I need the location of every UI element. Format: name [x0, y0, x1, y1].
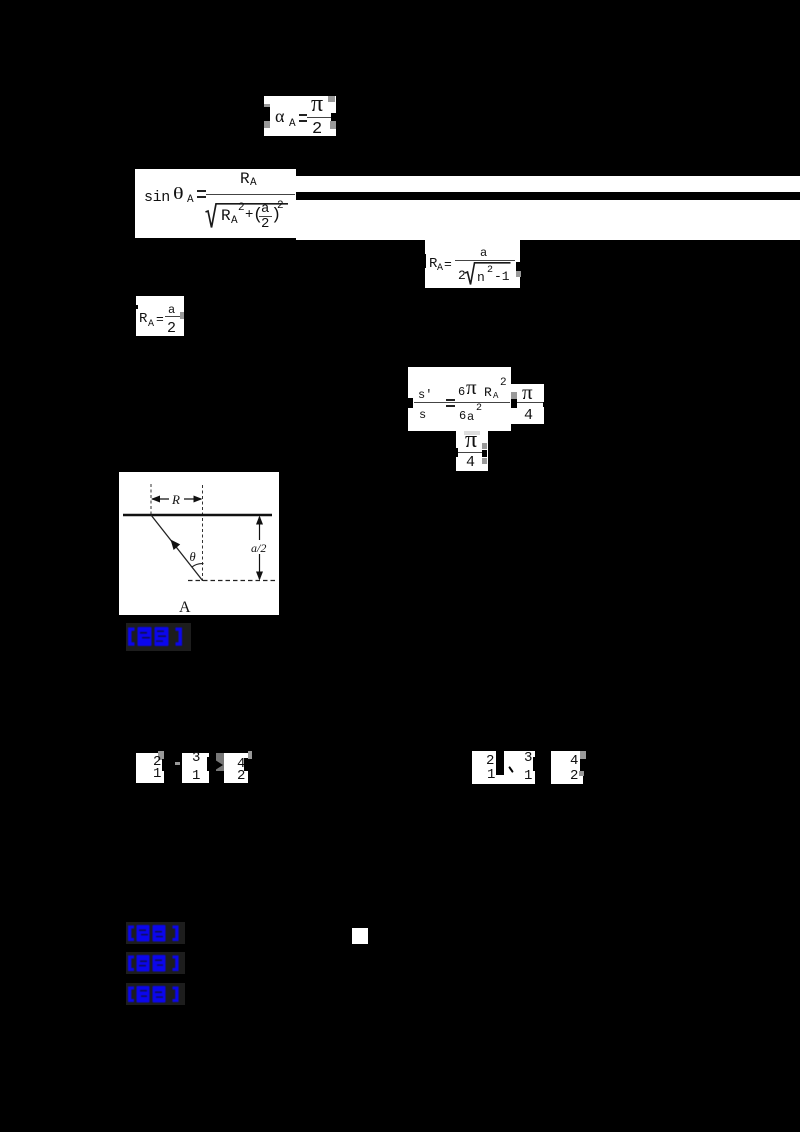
blue link [zhuanti]	[126, 952, 185, 974]
svg-text:A: A	[179, 599, 191, 616]
radical	[203, 196, 293, 232]
formula image 6: pi/4	[456, 431, 488, 471]
blue link [kaodian]	[126, 922, 185, 944]
fraction boxes row left	[136, 753, 164, 783]
svg-text:a/2: a/2	[251, 541, 266, 555]
formula image 4: R_A = a/2	[136, 296, 184, 336]
angle arc	[192, 564, 204, 568]
blue link [jieda]	[126, 623, 191, 651]
dashed vertical right	[202, 485, 204, 581]
dashed vertical left	[150, 484, 152, 515]
svg-text:R: R	[171, 492, 180, 507]
white strip 1	[296, 176, 800, 192]
white strip 2	[296, 200, 800, 240]
fraction boxes row right	[472, 751, 535, 784]
bottom dashed line	[188, 580, 276, 582]
a/2 double arrow	[259, 517, 261, 579]
diagonal line	[151, 515, 203, 581]
R double arrow	[152, 498, 169, 500]
svg-text:θ: θ	[190, 550, 196, 564]
formula image 2: sin theta_A = R_A / sqrt(R_A^2+(a/2)^2)	[135, 169, 296, 238]
blue link [fenxi]	[126, 983, 185, 1005]
formula image 5: s'/s = 6 pi R_A^2 / 6a^2 = pi/4	[408, 367, 511, 431]
white square	[352, 928, 368, 944]
arrow head on diagonal pointing up-left	[171, 540, 181, 551]
formula image 1: alpha_A = pi/2	[264, 96, 336, 136]
formula image 3: R_A = a / (2 sqrt(n^2-1))	[425, 240, 520, 288]
figure: diagram with R, theta, a/2, A	[119, 472, 279, 615]
main horizontal line	[123, 514, 272, 516]
